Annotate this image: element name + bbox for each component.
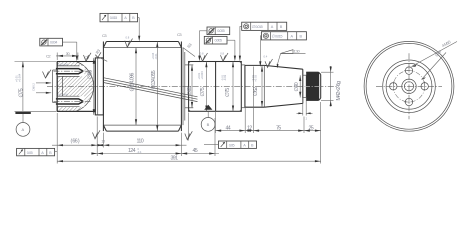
- svg-text:( 66 ): ( 66 ): [71, 139, 80, 145]
- relief groove after big cylinder: [183, 48, 193, 126]
- flange outer circle inner rim: [366, 43, 452, 129]
- svg-text:44: 44: [226, 125, 231, 131]
- svg-text:0.8: 0.8: [126, 35, 130, 39]
- runout frame bottom 0.05 A B: [17, 148, 58, 155]
- dimension 30 with C2 label: [46, 51, 79, 60]
- svg-text:10: 10: [101, 139, 106, 144]
- center pilot circle: [404, 82, 413, 91]
- hub circle outer: [383, 60, 436, 113]
- cylindricity frame 0.005 lower: [204, 36, 236, 61]
- hub circle inner: [386, 63, 432, 109]
- svg-text:-0.4: -0.4: [137, 150, 142, 154]
- view crosshair centerlines: [376, 53, 442, 119]
- svg-text:∅75: ∅75: [18, 88, 24, 97]
- bolt hole left: [390, 82, 397, 92]
- tapered section 1:10: [264, 65, 303, 107]
- svg-text:75: 75: [276, 125, 281, 131]
- groove width mini dim: [297, 98, 313, 121]
- center bore circle: [402, 79, 416, 93]
- thread relief groove: [303, 75, 306, 97]
- svg-text:M10-6H: M10-6H: [58, 93, 68, 97]
- hub face and edges redraw: [57, 62, 95, 112]
- diameter 62 cone dim: [251, 66, 263, 107]
- concentricity frame lower 0.015 A B: [259, 32, 306, 67]
- svg-text:0.8: 0.8: [220, 51, 224, 55]
- diameter 134.055 dim: [151, 42, 158, 132]
- svg-text:∅62: ∅62: [253, 87, 259, 96]
- diameter 75 journal second section dim: [220, 62, 234, 112]
- svg-text:M42×2-6g: M42×2-6g: [336, 81, 342, 101]
- threaded end M42: [304, 72, 322, 100]
- big cylinder body: [103, 42, 181, 132]
- diameter 75 right journal dim: [197, 62, 207, 112]
- surface finish mark on collar extension: [93, 130, 101, 139]
- surface finish mark near journal extension: [185, 113, 193, 141]
- thread M42x2-6g dim: [321, 66, 342, 107]
- surface finish mark on cone: [264, 55, 273, 68]
- collar ring: [95, 58, 103, 115]
- cylindricity frame 0.005 upper: [198, 27, 229, 61]
- svg-text:M10-6H: M10-6H: [58, 62, 68, 66]
- svg-text:0.05: 0.05: [229, 144, 235, 148]
- svg-text:∅40: ∅40: [294, 82, 300, 91]
- lower M10 tapped hole channel: [56, 93, 84, 107]
- surface finish mark on big cylinder: [125, 35, 133, 47]
- R3 fillet label left side: [95, 47, 108, 61]
- dim row (66) 10 110: [52, 113, 187, 164]
- svg-text:0.004: 0.004: [50, 41, 57, 45]
- svg-text:C3: C3: [102, 33, 107, 38]
- svg-text:391: 391: [171, 156, 179, 162]
- groove diameter dim: [294, 75, 301, 97]
- svg-text:R3: R3: [95, 47, 102, 54]
- surface finish mark on left journal: [84, 53, 92, 62]
- svg-text:-0.03: -0.03: [223, 74, 227, 81]
- taper 1:10 flag: [277, 48, 306, 68]
- leader 4-M10: [412, 39, 458, 67]
- svg-text:∅134.055: ∅134.055: [151, 70, 157, 89]
- cylindrical seat diameter 62: [245, 65, 264, 107]
- svg-text:30: 30: [66, 51, 71, 56]
- svg-text:1:10: 1:10: [294, 48, 301, 53]
- bolt hole bottom: [404, 98, 414, 105]
- cylindricity frame left 0.004: [40, 38, 78, 61]
- svg-text:+0.004: +0.004: [200, 71, 204, 80]
- leader diameter 44: [422, 49, 447, 80]
- dim row 391: [57, 102, 321, 164]
- svg-text:∅114.096: ∅114.096: [129, 73, 135, 92]
- upper M10 tapped hole channel: [56, 62, 84, 76]
- svg-text:110: 110: [137, 139, 144, 145]
- bolt hole right: [421, 82, 428, 92]
- datum A: [15, 112, 30, 136]
- svg-text:CM0.2: CM0.2: [31, 83, 35, 91]
- svg-text:+0.03: +0.03: [254, 74, 258, 81]
- bolt hole top: [404, 67, 414, 74]
- svg-text:∅75: ∅75: [225, 88, 231, 97]
- diameter 85 collar dim: [85, 52, 102, 115]
- svg-text:R3: R3: [186, 41, 193, 48]
- center hole callout CM: [31, 70, 51, 94]
- right bearing journal: [189, 62, 242, 112]
- svg-text:∅85: ∅85: [88, 70, 94, 79]
- svg-text:124: 124: [128, 148, 136, 154]
- svg-text:C2: C2: [46, 54, 51, 59]
- internal taper lines in big cylinder: [104, 78, 198, 102]
- main axis centerline: [47, 85, 338, 87]
- svg-text:∅75: ∅75: [200, 87, 206, 96]
- center bore depth line: [61, 76, 63, 96]
- datum B: [201, 105, 215, 132]
- surface finish marks on right journal: [200, 51, 208, 61]
- concentricity frame upper 0.015 A B: [239, 22, 287, 61]
- svg-text:B: B: [207, 122, 210, 127]
- svg-text:45: 45: [193, 148, 198, 154]
- svg-text:∅ 0.015: ∅ 0.015: [272, 35, 283, 39]
- svg-text:-0.01: -0.01: [154, 53, 158, 60]
- svg-text:25: 25: [309, 125, 314, 131]
- flange outer circle: [364, 41, 454, 131]
- lower hole centerline: [54, 100, 91, 102]
- dim row 44 12 75 25: [215, 67, 320, 134]
- runout frame top 0.015 A B: [100, 13, 140, 41]
- svg-text:0.4: 0.4: [264, 55, 268, 59]
- svg-text:C3: C3: [177, 32, 182, 37]
- svg-text:0.005: 0.005: [215, 39, 222, 43]
- svg-text:12: 12: [247, 125, 252, 131]
- upper hole centerline: [54, 70, 91, 72]
- svg-text:2: 2: [306, 117, 308, 121]
- svg-text:0.015: 0.015: [110, 16, 117, 20]
- svg-text:0.8: 0.8: [200, 51, 204, 55]
- center boss on left face: [53, 70, 58, 103]
- left end sectioned hub: hatched body: [57, 62, 93, 112]
- svg-text:∅ 0.015: ∅ 0.015: [252, 25, 263, 29]
- bolt circle centerline: [393, 71, 424, 102]
- diameter 75 left with tolerance: [15, 62, 57, 112]
- diameter 114.096 dim: [129, 48, 137, 126]
- svg-text:4-M10: 4-M10: [441, 39, 452, 48]
- R3 fillet label and leader: [183, 41, 195, 56]
- diameter 65 groove dim: [187, 65, 193, 108]
- dim row 124 45: [91, 118, 219, 156]
- svg-text:A: A: [22, 127, 25, 132]
- left hub outline: [57, 62, 95, 112]
- svg-text:0.05: 0.05: [27, 151, 33, 155]
- groove after right journal: [241, 65, 245, 108]
- svg-text:∅65: ∅65: [187, 86, 193, 95]
- svg-text:0.005: 0.005: [217, 29, 224, 33]
- runout frame bottom right 0.05 A B: [204, 141, 257, 148]
- svg-text:+0.004: +0.004: [17, 73, 21, 82]
